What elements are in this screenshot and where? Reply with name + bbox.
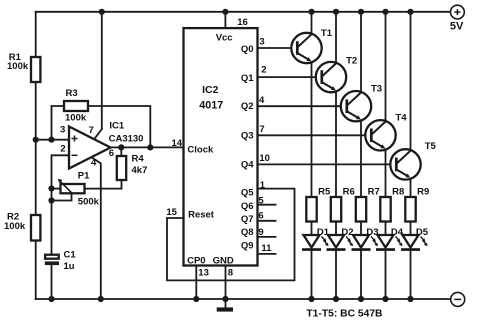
svg-text:R8: R8 <box>392 186 404 197</box>
svg-text:T1-T5: BC 547B: T1-T5: BC 547B <box>306 308 382 319</box>
svg-text:T2: T2 <box>346 55 357 66</box>
svg-text:6: 6 <box>258 210 263 221</box>
svg-text:D4: D4 <box>391 227 404 238</box>
svg-text:100k: 100k <box>4 221 26 232</box>
svg-text:D3: D3 <box>366 227 378 238</box>
svg-text:T4: T4 <box>396 113 408 124</box>
svg-text:4: 4 <box>259 95 265 106</box>
svg-text:7: 7 <box>259 124 264 135</box>
svg-text:Q4: Q4 <box>241 159 254 170</box>
svg-text:Q3: Q3 <box>241 130 254 141</box>
svg-text:CP0: CP0 <box>187 256 205 267</box>
svg-text:500k: 500k <box>78 196 100 207</box>
svg-text:Q7: Q7 <box>241 214 254 225</box>
svg-text:3: 3 <box>60 124 65 135</box>
svg-text:T3: T3 <box>371 83 382 94</box>
svg-text:Vcc: Vcc <box>216 32 233 43</box>
svg-text:4k7: 4k7 <box>132 165 148 176</box>
svg-text:Clock: Clock <box>187 144 214 155</box>
svg-text:CA3130: CA3130 <box>109 134 144 145</box>
svg-text:9: 9 <box>258 227 263 238</box>
svg-text:1: 1 <box>260 180 266 191</box>
svg-text:2: 2 <box>60 143 65 154</box>
svg-text:R9: R9 <box>417 186 429 197</box>
svg-text:R3: R3 <box>66 88 78 99</box>
svg-text:100k: 100k <box>7 61 29 72</box>
svg-text:C1: C1 <box>64 249 77 260</box>
svg-text:7: 7 <box>89 125 94 136</box>
svg-text:IC2: IC2 <box>202 84 219 96</box>
svg-text:3: 3 <box>259 37 264 48</box>
svg-text:P1: P1 <box>78 170 90 181</box>
svg-text:1u: 1u <box>64 261 75 272</box>
svg-text:11: 11 <box>261 243 272 254</box>
svg-text:R5: R5 <box>318 186 331 197</box>
svg-text:R6: R6 <box>343 186 355 197</box>
svg-text:Q0: Q0 <box>241 44 254 55</box>
svg-text:16: 16 <box>237 17 248 28</box>
svg-text:4: 4 <box>91 157 97 168</box>
svg-text:5: 5 <box>258 195 264 206</box>
svg-text:T1: T1 <box>321 28 333 39</box>
svg-text:IC1: IC1 <box>109 120 125 131</box>
svg-text:Q5: Q5 <box>241 188 254 199</box>
svg-text:100k: 100k <box>65 113 87 124</box>
svg-text:D2: D2 <box>341 227 353 238</box>
svg-text:8: 8 <box>228 267 233 278</box>
svg-text:D1: D1 <box>317 227 330 238</box>
svg-text:10: 10 <box>259 153 270 164</box>
svg-text:2: 2 <box>261 64 266 75</box>
svg-text:13: 13 <box>198 267 209 278</box>
svg-text:14: 14 <box>172 138 183 149</box>
svg-text:Q8: Q8 <box>241 227 254 238</box>
svg-text:15: 15 <box>166 207 177 218</box>
svg-text:4017: 4017 <box>199 100 223 112</box>
svg-text:Reset: Reset <box>188 210 215 221</box>
svg-text:T5: T5 <box>425 141 437 152</box>
svg-text:6: 6 <box>109 148 114 159</box>
svg-text:D5: D5 <box>416 227 429 238</box>
svg-text:Q6: Q6 <box>241 201 254 212</box>
svg-text:5V: 5V <box>450 21 464 33</box>
svg-text:R4: R4 <box>132 153 145 164</box>
svg-text:Q2: Q2 <box>241 101 254 112</box>
svg-text:R7: R7 <box>368 186 380 197</box>
svg-text:GND: GND <box>213 256 234 267</box>
svg-text:Q9: Q9 <box>241 240 254 251</box>
svg-text:Q1: Q1 <box>241 73 254 84</box>
